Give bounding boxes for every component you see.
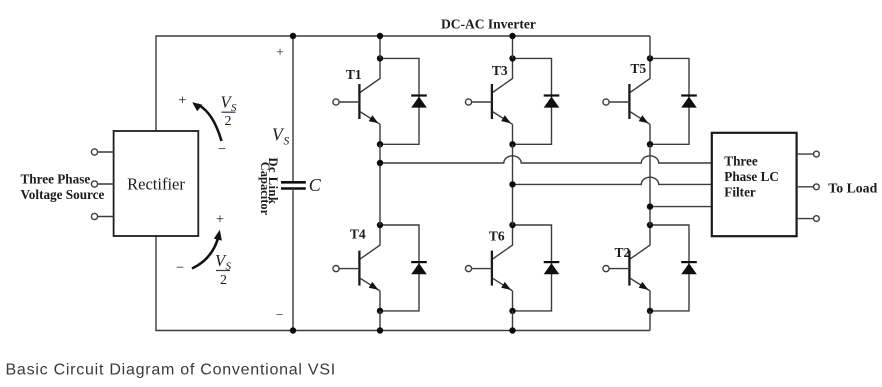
node top rail T1 junction bbox=[377, 33, 383, 39]
transistor T5 bbox=[603, 58, 650, 144]
svg-text:Three Phase: Three Phase bbox=[21, 172, 91, 187]
node bottom rail T4 junction bbox=[377, 327, 383, 333]
rectifier block bbox=[114, 131, 199, 236]
node T4 split junction bbox=[377, 222, 383, 228]
svg-text:Filter: Filter bbox=[724, 185, 756, 200]
svg-text:T1: T1 bbox=[346, 67, 362, 82]
wire phase A with crossover hops bbox=[380, 156, 712, 163]
svg-text:Rectifier: Rectifier bbox=[127, 175, 185, 194]
output terminal 2 bbox=[797, 184, 820, 190]
svg-text:Voltage Source: Voltage Source bbox=[21, 187, 105, 202]
diode antiparallel with T5 bbox=[650, 58, 697, 144]
svg-text:S: S bbox=[284, 136, 290, 148]
wire bottom DC bus rail bbox=[156, 236, 650, 331]
wire phase B with crossover hop bbox=[513, 177, 712, 184]
annotation upper Vs/2 arrow bbox=[178, 92, 226, 157]
svg-text:T5: T5 bbox=[630, 61, 646, 76]
wire T4 leg to bottom rail bbox=[379, 311, 381, 331]
svg-text:Three: Three bbox=[724, 154, 758, 169]
transistor T2 bbox=[603, 225, 650, 311]
label Vs/2 upper fraction bbox=[221, 93, 238, 129]
svg-text:T3: T3 bbox=[492, 63, 508, 78]
diode antiparallel with T1 bbox=[380, 58, 427, 144]
input terminal 2 bbox=[91, 181, 113, 187]
node phase B tap bbox=[509, 181, 515, 187]
svg-text:−: − bbox=[276, 307, 284, 322]
svg-text:2: 2 bbox=[225, 114, 232, 129]
wire top DC bus rail bbox=[156, 36, 650, 131]
diode antiparallel with T2 bbox=[650, 225, 697, 311]
svg-text:+: + bbox=[216, 211, 224, 227]
node cap top junction bbox=[290, 33, 296, 39]
svg-text:T2: T2 bbox=[615, 245, 631, 260]
svg-text:+: + bbox=[276, 45, 284, 60]
transistor T6 bbox=[465, 225, 512, 311]
node T5 split junction bbox=[647, 55, 653, 61]
node T2 split junction bbox=[647, 222, 653, 228]
wire phase C bbox=[650, 206, 712, 208]
wire T1 leg to T4 bbox=[379, 144, 381, 225]
svg-text:C: C bbox=[309, 175, 322, 195]
filter block Three Phase LC Filter bbox=[712, 133, 797, 236]
svg-text:−: − bbox=[176, 260, 184, 276]
node T6 merge junction bbox=[509, 308, 515, 314]
wire T5 branch from top rail corner bbox=[649, 36, 651, 58]
svg-text:DC-AC Inverter: DC-AC Inverter bbox=[441, 17, 536, 32]
svg-text:2: 2 bbox=[220, 273, 227, 288]
node T2 merge junction bbox=[647, 308, 653, 314]
node T1 merge junction bbox=[377, 141, 383, 147]
svg-text:Capacitor: Capacitor bbox=[258, 162, 272, 216]
wire T3 branch from top rail bbox=[512, 36, 514, 58]
svg-text:Basic Circuit Diagram of Conve: Basic Circuit Diagram of Conventional VS… bbox=[6, 361, 336, 378]
input terminal 3 bbox=[91, 213, 113, 219]
svg-text:−: − bbox=[218, 141, 226, 157]
wire T2 branch to bottom rail corner bbox=[649, 311, 651, 331]
input terminal 1 bbox=[91, 149, 113, 155]
output terminal 1 bbox=[797, 151, 820, 157]
node T4 merge junction bbox=[377, 308, 383, 314]
node T3 merge junction bbox=[509, 141, 515, 147]
node phase C tap bbox=[647, 203, 653, 209]
node T6 split junction bbox=[509, 222, 515, 228]
transistor T3 bbox=[465, 58, 512, 144]
label Vs bus voltage bbox=[272, 125, 290, 148]
wire T5 leg to T2 bbox=[649, 144, 651, 225]
wire T3 leg to T6 bbox=[512, 144, 514, 225]
svg-text:T4: T4 bbox=[350, 227, 366, 242]
diode antiparallel with T6 bbox=[513, 225, 560, 311]
wire T6 leg to bottom rail bbox=[512, 311, 514, 331]
transistor T4 bbox=[333, 225, 380, 311]
wire T1 branch from top rail bbox=[379, 36, 381, 58]
svg-text:To Load: To Load bbox=[828, 180, 877, 195]
diode antiparallel with T3 bbox=[513, 58, 560, 144]
node top rail T3 junction bbox=[509, 33, 515, 39]
svg-text:+: + bbox=[178, 92, 186, 108]
svg-text:Phase LC: Phase LC bbox=[724, 169, 779, 184]
transistor T1 bbox=[333, 58, 380, 144]
node T1 split junction bbox=[377, 55, 383, 61]
node bottom rail T6 junction bbox=[509, 327, 515, 333]
label Vs/2 lower fraction bbox=[215, 251, 232, 288]
node T5 merge junction bbox=[647, 141, 653, 147]
annotation lower Vs/2 arrow bbox=[176, 211, 224, 276]
node T3 split junction bbox=[509, 55, 515, 61]
label Dc Link Capacitor bbox=[258, 158, 280, 216]
diode antiparallel with T4 bbox=[380, 225, 427, 311]
output terminal 3 bbox=[797, 216, 820, 222]
capacitor C dc link bbox=[281, 36, 306, 331]
node cap bottom junction bbox=[290, 327, 296, 333]
node phase A tap bbox=[377, 160, 383, 166]
label Three Phase Voltage Source bbox=[21, 172, 105, 202]
svg-text:T6: T6 bbox=[489, 229, 505, 244]
